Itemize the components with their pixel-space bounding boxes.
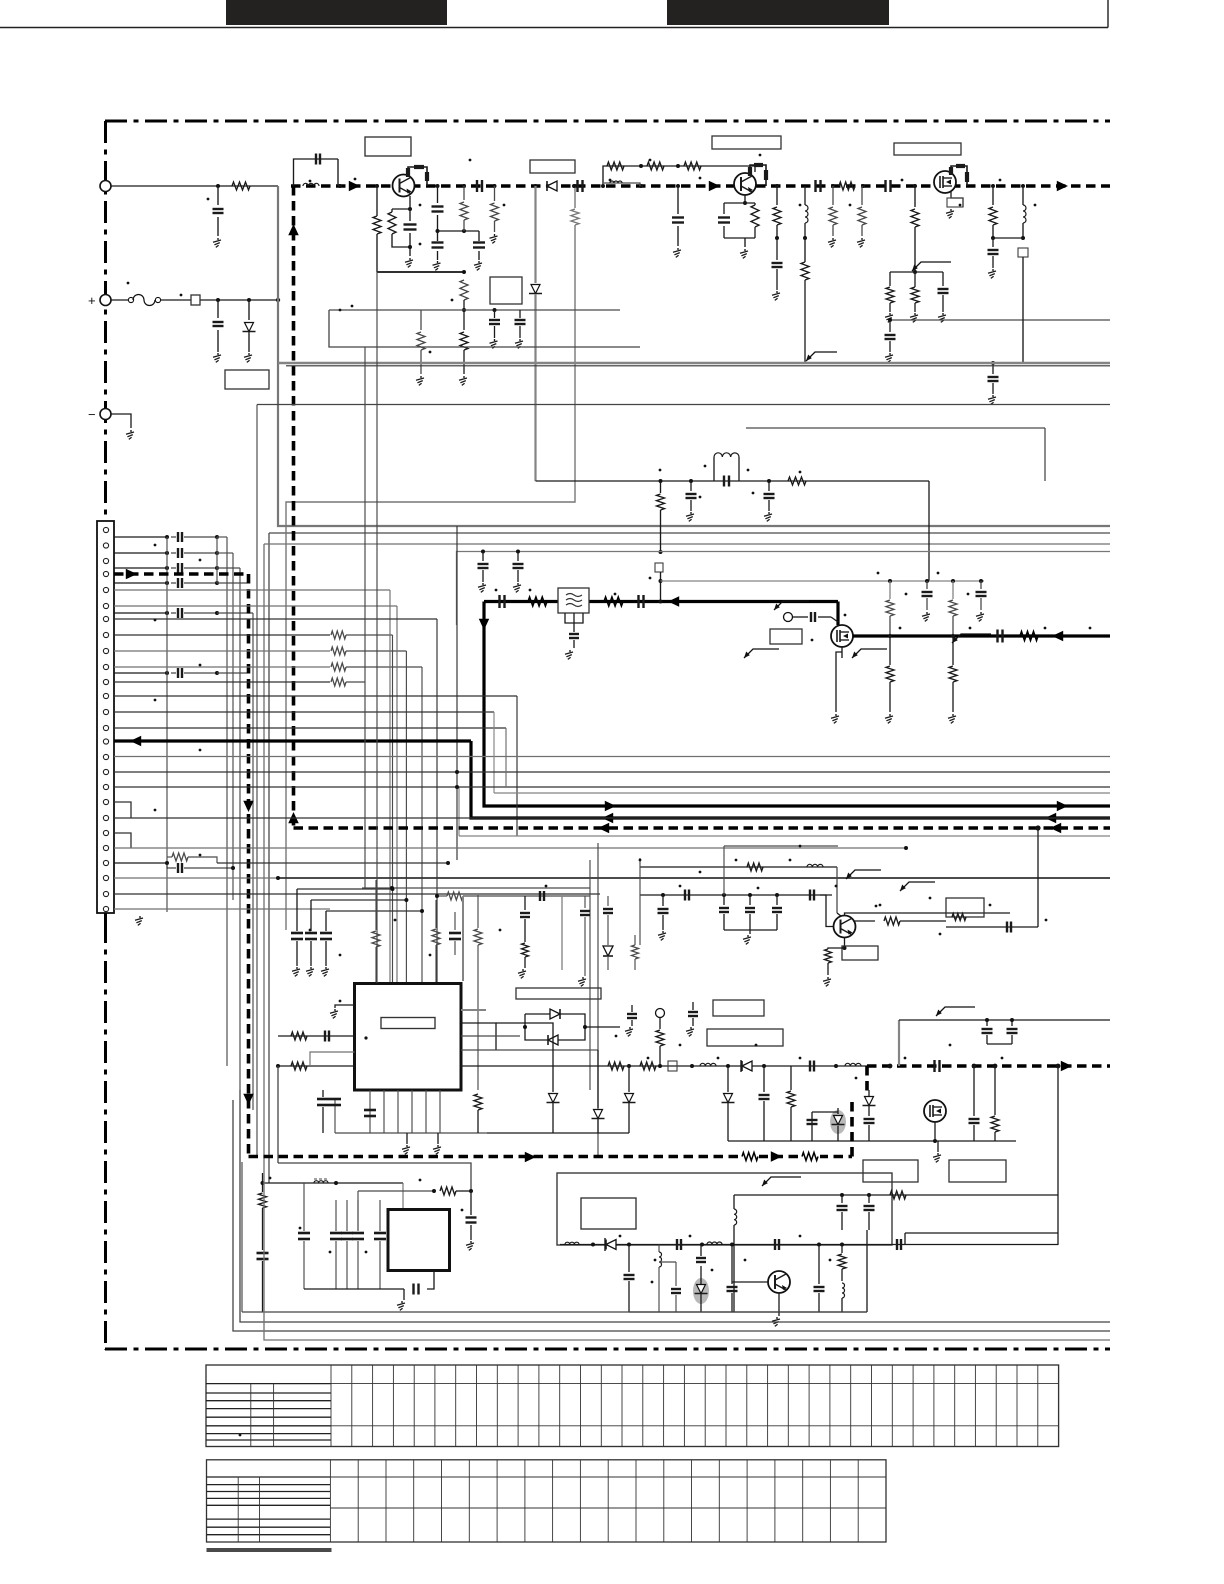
capacitor C2 (217, 300, 219, 318)
misc dots (699, 871, 702, 874)
wire (217, 536, 227, 538)
arrow left (1050, 823, 1061, 834)
resistor R34 (608, 1062, 624, 1070)
dot mark (127, 282, 130, 285)
wire (724, 929, 777, 931)
ground (463, 376, 465, 378)
feedback loop Q3 (946, 898, 984, 917)
pin row 787 (114, 786, 1110, 788)
node (951, 634, 955, 638)
ground (325, 967, 327, 969)
series capacitor (165, 551, 169, 555)
osc row (560, 1244, 1058, 1246)
board outline dash-dot top (105, 120, 1110, 123)
arrow down (479, 619, 490, 630)
label box IF long (516, 988, 601, 999)
node (888, 1064, 893, 1069)
wire pin row (114, 695, 330, 697)
resistor R22 drop (660, 481, 662, 493)
capacitor C1 (217, 186, 219, 205)
bottom rail (335, 1132, 487, 1134)
capacitor C19 (942, 272, 944, 286)
capacitor C31 (979, 579, 983, 583)
resistor R27 (951, 579, 955, 583)
capacitor C4 feedback (294, 159, 339, 186)
IC1 pin wire (425, 1090, 427, 1133)
varactor section below (727, 1066, 729, 1092)
wire pin row (114, 582, 167, 584)
capacitor C58 (675, 1262, 677, 1286)
drop x608 (607, 896, 609, 906)
wire pin row gray (114, 666, 330, 668)
node (840, 1243, 844, 1247)
Q1 emitter rail (377, 271, 464, 273)
corner to IF (928, 481, 930, 581)
node (991, 184, 995, 188)
capacitor C61 (723, 895, 725, 905)
capacitor IC2 (335, 1200, 337, 1231)
row 590 riser (330, 589, 390, 591)
arrow up (288, 224, 299, 235)
wire base row (640, 894, 832, 896)
ground (889, 353, 891, 355)
node (817, 1243, 821, 1247)
leader (912, 262, 951, 271)
header title block bar right (667, 0, 889, 25)
table 1 frame (206, 1365, 1059, 1447)
inductor L2 (303, 183, 319, 186)
wire IC feed vertical C (256, 405, 258, 1158)
ground (139, 916, 141, 918)
label box up1 (713, 1000, 764, 1016)
VCXO inner label (581, 1198, 636, 1229)
series capacitor C8 bus (884, 180, 886, 192)
bypass caps IC1 (297, 888, 393, 890)
wire pin row (114, 681, 330, 683)
ground (832, 238, 834, 240)
bold dashed corner up (850, 1098, 854, 1157)
resistor R13 (776, 186, 778, 205)
resistor R36 (790, 1066, 792, 1090)
capacitor C51 (470, 1191, 472, 1215)
arrow right (709, 181, 720, 192)
resistor R14 (801, 262, 809, 280)
leader (774, 601, 809, 610)
Q3 base wire (820, 895, 833, 927)
mid rail (329, 309, 620, 311)
resistor R48 (632, 945, 639, 959)
board outline dash-dot left (104, 121, 107, 1350)
wire pin row (114, 567, 167, 569)
resistor R28 below (952, 636, 954, 665)
node (913, 270, 917, 274)
wire pin row (114, 634, 330, 636)
resistor R18 (889, 272, 891, 286)
capacitor C43 (986, 1020, 988, 1026)
diode D7 (606, 1240, 616, 1250)
series capacitor C32 out (996, 630, 998, 643)
node (659, 479, 663, 483)
ground (437, 261, 439, 263)
table 1 left block (206, 1383, 331, 1385)
capacitor C60 (814, 1286, 825, 1288)
gray bus AGC (278, 362, 1110, 364)
series capacitor C50 (412, 1284, 414, 1295)
resistor R24 thick (604, 597, 623, 606)
ground (677, 248, 679, 250)
capacitor C17 (723, 203, 725, 214)
resistor R5 (684, 162, 701, 170)
thick RF corner down (484, 602, 1110, 807)
resistor R29 out (1020, 632, 1038, 641)
capacitor C54 (676, 1239, 678, 1250)
node (627, 1243, 631, 1247)
wire y1195 (734, 1194, 1058, 1196)
row 667 riser (346, 666, 422, 668)
gray vert (561, 896, 563, 970)
return line 3 gray (264, 1173, 1110, 1340)
IC1 label (381, 1018, 435, 1029)
series capacitor (165, 535, 169, 539)
series capacitor C29 (637, 595, 639, 608)
wire Q2 top (754, 166, 756, 172)
dot mark (207, 198, 210, 201)
wire Q2 base stub (604, 183, 640, 186)
node (493, 184, 497, 188)
return line 2 (233, 1100, 1110, 1331)
resistor R31 (435, 900, 437, 928)
resistor R26 below (889, 636, 891, 665)
ground (478, 261, 480, 263)
node (334, 1181, 338, 1185)
thin line net2 (257, 404, 1110, 406)
wire (724, 237, 755, 239)
node (1021, 184, 1025, 188)
wire net y347 (329, 310, 640, 347)
node (762, 1064, 766, 1068)
wire mesh top of IC1 (362, 887, 590, 889)
wire (111, 414, 131, 428)
resistor R2 bus (839, 182, 855, 190)
ground (217, 238, 219, 240)
rail ext (487, 1132, 629, 1134)
drop x525 (524, 896, 526, 910)
node (888, 634, 892, 638)
ground (889, 714, 891, 716)
leader (952, 634, 991, 643)
VCXO box (557, 1173, 892, 1245)
bold dashed vertical TX (247, 574, 251, 1157)
capacitor bypass (325, 911, 327, 931)
node (659, 550, 663, 554)
resistor R7 (463, 186, 465, 200)
LC tank L4 (713, 457, 715, 481)
wire B+ sub feed (573, 184, 577, 188)
node (516, 550, 520, 554)
wire from x278 down (277, 1066, 279, 1163)
wire pin row gray (114, 605, 330, 607)
vertical x459 (458, 787, 460, 836)
table 2 left block (207, 1476, 331, 1478)
resistor R8 (494, 186, 496, 201)
ground (690, 1027, 692, 1029)
VCO supply line (898, 1020, 900, 1066)
ground (778, 1312, 780, 1316)
connector CN1 body (97, 521, 114, 913)
ground (420, 376, 422, 378)
wire nested bus 3 (264, 543, 1110, 545)
dot marks (351, 305, 354, 308)
inductor L3 (1022, 186, 1024, 205)
zener drop B (590, 1049, 598, 1051)
table 2 grid (330, 1476, 886, 1478)
capacitor C34 (322, 1090, 324, 1097)
node (730, 1243, 734, 1247)
header right edge (1107, 0, 1109, 28)
dot mark (180, 294, 183, 297)
ground (217, 353, 219, 355)
osc top wire (905, 1232, 1058, 1234)
capacitor C15 (519, 310, 521, 318)
wire pin row (114, 612, 167, 614)
resistor row (331, 647, 346, 655)
long vertical x457 (456, 526, 458, 860)
ground (914, 313, 916, 315)
thick RX audio row (114, 739, 471, 742)
label box Q3 (842, 946, 878, 960)
Q4 wires (732, 1281, 768, 1283)
FET M1 (934, 171, 956, 193)
return line 0 (242, 1311, 867, 1313)
wire pin row (114, 552, 167, 554)
IC1 pin wire (439, 1090, 441, 1133)
table 2 footer bar (207, 1548, 332, 1552)
FL1 gnd cap (569, 633, 579, 635)
bold dashed LO drop (865, 1066, 869, 1094)
ground (942, 313, 944, 315)
resistor R47 (522, 943, 529, 957)
ground (952, 714, 954, 716)
ferrite bead (1018, 248, 1028, 257)
pin row 894 (114, 893, 600, 895)
node (481, 550, 485, 554)
arrow right (126, 569, 137, 580)
shield box top rail (457, 552, 1111, 626)
arrow right (349, 181, 360, 192)
node (261, 1181, 265, 1185)
arrow down (243, 801, 254, 812)
pin row 909 (114, 908, 330, 910)
resistor R12 (751, 205, 759, 227)
transistor Q1 (393, 175, 415, 197)
wire (993, 237, 1023, 239)
IC1 pin wire (411, 1090, 413, 1133)
label box Q2b (712, 136, 781, 149)
node (216, 298, 220, 302)
Q3 emitter (844, 938, 846, 948)
node (726, 1064, 730, 1068)
leader (744, 649, 779, 658)
header rule (0, 27, 1108, 29)
node (700, 1243, 704, 1247)
node (572, 184, 576, 188)
FET M2 mixer (831, 625, 853, 647)
label box TX2 (949, 1160, 1006, 1182)
node (775, 236, 779, 240)
IC1 right pin y1036 (461, 1035, 520, 1037)
series capacitor C5 bus (476, 180, 478, 192)
resistor R1 (232, 182, 250, 190)
resistor R25 (889, 581, 891, 599)
inductor L11 (707, 1242, 722, 1245)
series capacitor (165, 566, 169, 570)
row 606 riser (330, 605, 397, 607)
capacitor bypass (296, 889, 298, 931)
ground (662, 931, 664, 933)
capacitor C25 (768, 481, 770, 491)
wire up to bus (1037, 828, 1039, 927)
row 712 riser (330, 711, 494, 713)
resistor R46 (841, 1245, 843, 1254)
dot marks (704, 465, 707, 468)
node (601, 184, 605, 188)
node (840, 1193, 844, 1197)
diode D9 (603, 946, 613, 956)
wire pin row (114, 672, 167, 674)
label box up2 (707, 1029, 783, 1046)
zener drop C (627, 1064, 631, 1068)
wire pin row gray (114, 650, 330, 652)
M2 source gnd (841, 647, 843, 658)
ground (835, 714, 837, 716)
node (276, 298, 280, 302)
terminal J1 ANT (100, 181, 111, 192)
capacitor C39 (763, 1066, 765, 1092)
capacitor C10 (437, 186, 439, 203)
gray stub (310, 1052, 355, 1066)
capacitor C22 at rail (991, 361, 995, 365)
capacitor C18 (776, 238, 778, 260)
zener D6 (865, 1097, 874, 1106)
left caps area y880-980 (639, 858, 641, 945)
bold dashed TX bus y1157 (249, 1155, 853, 1159)
ground (744, 249, 746, 251)
node (436, 229, 440, 233)
ground (517, 583, 519, 585)
inductor L9 (734, 1209, 737, 1225)
ground (494, 339, 496, 341)
drop x585 (584, 896, 586, 908)
series capacitor C37 (933, 1060, 935, 1072)
thin line net3 (746, 427, 1045, 429)
ground (776, 291, 778, 293)
wire (111, 185, 278, 187)
ground (494, 234, 496, 236)
IC2 PLL IC (388, 1210, 450, 1271)
bold dashed RX bus vertical (292, 186, 296, 828)
wire nested bus 2 (269, 532, 1110, 534)
Q3 collector net (845, 913, 1011, 916)
bold dashed LO bus (867, 1064, 1110, 1068)
row 619 riser (330, 618, 437, 620)
zener D3 (531, 285, 540, 294)
bold dashed PTT row (114, 572, 249, 576)
resistor R17 tall (914, 186, 916, 207)
wire net (640, 866, 837, 868)
arrow right (1057, 181, 1068, 192)
capacitor C45 (684, 890, 686, 901)
row 682 to net347 (346, 681, 365, 683)
resistor R32 (477, 895, 479, 928)
node (676, 164, 680, 168)
pin row 833 step (114, 833, 131, 848)
capacitor C16 (677, 186, 679, 214)
arrow left y818b (1045, 813, 1056, 824)
grounds IC1 (406, 1145, 408, 1147)
thick RF out (853, 634, 1110, 637)
label box mixer (770, 629, 802, 644)
resistor row (331, 631, 346, 639)
capacitor C44 (1011, 1020, 1013, 1026)
ground (310, 967, 312, 969)
capacitor C65 (692, 1002, 694, 1010)
cap row verticals (166, 537, 168, 912)
bold dashed main bus y828 (294, 826, 1111, 830)
ground (470, 1241, 472, 1243)
capacitor IC2 (379, 1200, 381, 1231)
capacitor C57 (628, 1245, 630, 1273)
resistor R44 (432, 1189, 436, 1193)
capacitor C56 (896, 1239, 898, 1250)
node (676, 184, 680, 188)
inductor L13 (842, 1283, 845, 1298)
mixer osc inject (784, 613, 793, 622)
wire vert x867 (866, 1230, 868, 1245)
transistor Q2 (734, 173, 756, 195)
arrow left (598, 823, 609, 834)
capacitor C42 (973, 1066, 975, 1116)
wire pin row (114, 618, 330, 620)
connector stem (104, 913, 107, 930)
wire (523, 1025, 527, 1029)
ground (992, 395, 994, 397)
gray shield stub (462, 896, 464, 981)
capacitor C35 (329, 1098, 341, 1101)
capacitor IC2 (357, 1200, 359, 1231)
resistor R23 thick (528, 597, 547, 606)
Q1 bias loop (392, 208, 410, 210)
choke drop (804, 186, 806, 205)
designator dot marks (309, 180, 312, 183)
capacitor C47 (946, 926, 1038, 928)
wire (1057, 1066, 1059, 1245)
resistor R10 left tail (420, 310, 422, 330)
ground (926, 612, 928, 614)
M1 source bias (951, 192, 963, 207)
label box Q1 (365, 137, 411, 156)
svg-text:+: + (88, 293, 96, 308)
transistor Q4 osc (768, 1271, 790, 1293)
connector pins (103, 527, 108, 532)
wire IC feed vertical B (232, 553, 234, 900)
ground (482, 583, 484, 585)
capacitor C14 (494, 310, 496, 318)
ground (749, 930, 751, 934)
ground (889, 313, 891, 315)
row 635 riser (346, 634, 393, 636)
resistor R42 inline (800, 1152, 820, 1161)
lower rail (728, 1140, 1016, 1142)
